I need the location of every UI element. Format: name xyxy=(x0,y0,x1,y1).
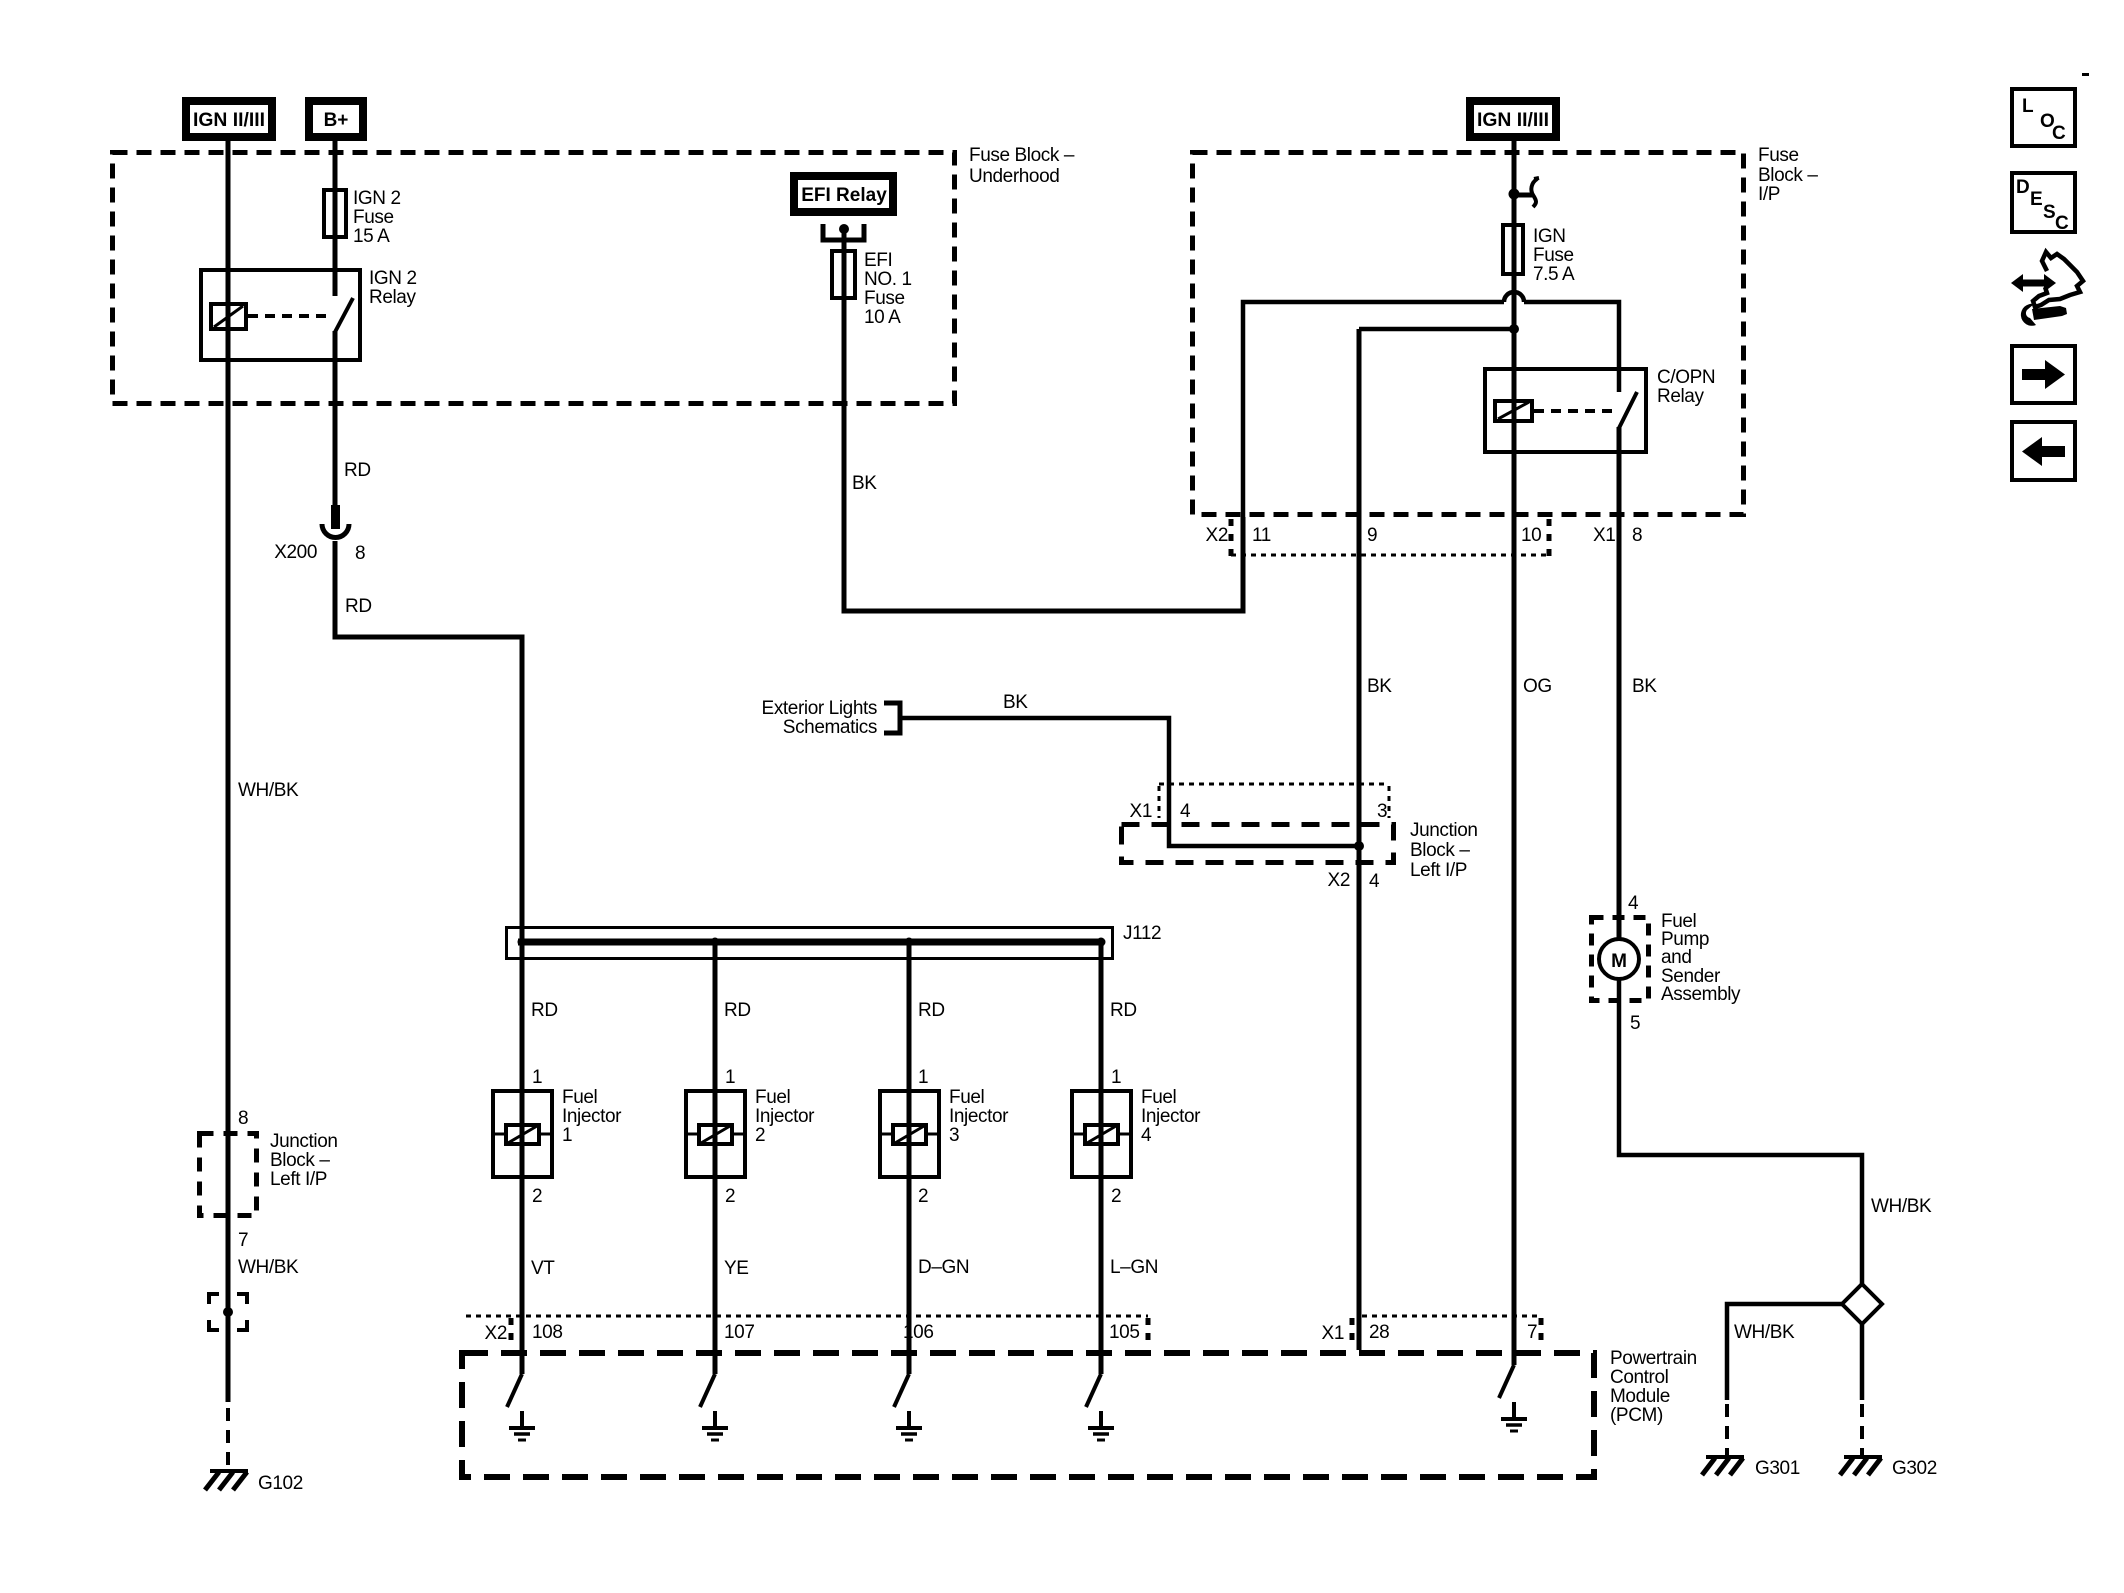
connector X200 socket xyxy=(322,524,349,538)
svg-text:(PCM): (PCM) xyxy=(1610,1405,1663,1426)
connector X1 separator (fuse block IP) xyxy=(1547,519,1552,556)
node J112 tap 3 xyxy=(905,938,914,947)
svg-text:Assembly: Assembly xyxy=(1661,984,1741,1005)
fuse block IP dashed box xyxy=(1193,153,1744,515)
hidden wire to G302 xyxy=(1860,1404,1864,1457)
connector X1 strip (PCM) xyxy=(1362,1315,1541,1318)
svg-text:7.5 A: 7.5 A xyxy=(1533,264,1575,285)
power tag IGN II/III (right) xyxy=(1470,101,1556,137)
wire hop over IGN feed xyxy=(1504,292,1524,302)
svg-text:C/OPN: C/OPN xyxy=(1657,367,1715,388)
svg-text:BK: BK xyxy=(1367,676,1392,697)
PCM dashed box xyxy=(462,1353,1594,1477)
svg-text:Fuel: Fuel xyxy=(1141,1087,1176,1108)
svg-text:WH/BK: WH/BK xyxy=(238,780,299,801)
label IGN Fuse 7.5 A xyxy=(1533,226,1575,285)
relay C/OPN coil xyxy=(1495,401,1532,421)
svg-text:C: C xyxy=(2055,213,2069,234)
connector X200 pin xyxy=(331,505,340,529)
PCM driver (pin 107) blade xyxy=(700,1374,715,1407)
svg-text:3: 3 xyxy=(1377,801,1387,822)
wire WH/BK to G301 xyxy=(1727,1304,1842,1400)
svg-text:105: 105 xyxy=(1109,1322,1140,1343)
svg-text:IGN II/III: IGN II/III xyxy=(1477,110,1549,131)
wire L-GN injector 4 return xyxy=(1099,1179,1104,1374)
svg-text:Fuel: Fuel xyxy=(562,1087,597,1108)
node EFI relay output xyxy=(839,224,849,234)
EFI relay output bracket xyxy=(823,224,864,240)
svg-text:Relay: Relay xyxy=(1657,386,1704,407)
svg-text:RD: RD xyxy=(345,596,372,617)
svg-text:7: 7 xyxy=(1527,1322,1537,1343)
ground G302 xyxy=(1840,1457,1882,1475)
fuel injector 3 xyxy=(878,1091,941,1177)
PCM driver (pin 7) blade xyxy=(1499,1365,1514,1398)
relay C/OPN switch blade xyxy=(1619,392,1637,428)
wire BK relay output to fuel pump xyxy=(1617,427,1622,939)
svg-text:VT: VT xyxy=(531,1258,555,1279)
fuel pump motor xyxy=(1599,939,1639,979)
svg-text:15 A: 15 A xyxy=(353,226,390,247)
svg-text:5: 5 xyxy=(1630,1013,1640,1034)
svg-text:E: E xyxy=(2030,189,2043,210)
svg-text:1: 1 xyxy=(1111,1067,1121,1088)
svg-text:Fuse: Fuse xyxy=(864,288,905,309)
svg-text:2: 2 xyxy=(532,1186,542,1207)
connector X1 strip (junction block) xyxy=(1159,784,1389,818)
node IGN fuse output junction xyxy=(1509,324,1519,334)
wire WH/BK fuel pump return xyxy=(1619,979,1862,1284)
svg-text:IGN II/III: IGN II/III xyxy=(193,110,265,131)
svg-text:Fuel: Fuel xyxy=(949,1087,984,1108)
wire BK from EFI fuse to fuse block IP pin 11 xyxy=(844,298,1243,611)
connector strip bottom line xyxy=(1231,554,1549,557)
relay C/OPN dashed actuation link xyxy=(1534,409,1614,413)
wire RD injector 2 feed xyxy=(713,942,718,1180)
svg-text:EFI: EFI xyxy=(864,250,892,271)
node J112 tap 2 xyxy=(711,938,720,947)
wire EFI relay to fuse xyxy=(842,229,847,298)
svg-text:Underhood: Underhood xyxy=(969,166,1059,187)
svg-text:BK: BK xyxy=(1632,676,1657,697)
bus J112 xyxy=(518,939,1103,946)
svg-text:X2: X2 xyxy=(1206,525,1228,546)
svg-text:2: 2 xyxy=(755,1125,765,1146)
fuel injector 4 xyxy=(1070,1091,1133,1177)
svg-text:G301: G301 xyxy=(1755,1458,1800,1479)
svg-text:RD: RD xyxy=(724,1000,751,1021)
svg-text:D–GN: D–GN xyxy=(918,1257,969,1278)
wire YE injector 2 return xyxy=(713,1179,718,1374)
splice connector brackets xyxy=(209,1294,247,1330)
svg-text:Block –: Block – xyxy=(270,1150,330,1171)
label Exterior Lights Schematics xyxy=(762,698,877,738)
svg-text:108: 108 xyxy=(532,1322,563,1343)
svg-text:L: L xyxy=(2022,96,2034,117)
PCM driver (pin 106) blade xyxy=(894,1374,909,1407)
svg-text:OG: OG xyxy=(1523,676,1552,697)
hidden wire to G102 xyxy=(226,1408,230,1470)
fuse block underhood dashed box xyxy=(113,153,955,404)
svg-text:Injector: Injector xyxy=(1141,1106,1201,1127)
stray mark top right xyxy=(2082,73,2089,76)
svg-text:11: 11 xyxy=(1252,525,1271,546)
wire WH/BK from IGN II/III down left side xyxy=(226,141,231,1402)
wire VT injector 1 return xyxy=(520,1179,525,1374)
node junction block splice xyxy=(1354,841,1364,851)
svg-text:B+: B+ xyxy=(324,110,349,131)
wire RD injector 3 feed xyxy=(907,942,912,1180)
svg-text:Powertrain: Powertrain xyxy=(1610,1348,1697,1369)
svg-text:WH/BK: WH/BK xyxy=(238,1257,299,1278)
label Fuel Injector 3 xyxy=(949,1087,1009,1146)
node J112 tap 4 xyxy=(1097,938,1106,947)
PCM driver (pin 108) blade xyxy=(507,1374,522,1407)
ground symbol PCM (pin 108) xyxy=(509,1411,535,1440)
ground symbol PCM (pin 107) xyxy=(702,1411,728,1440)
wire D-GN injector 3 return xyxy=(907,1179,912,1374)
svg-text:YE: YE xyxy=(724,1258,749,1279)
power tag IGN II/III (left) xyxy=(186,101,272,137)
label Junction Block Left IP xyxy=(1410,820,1478,881)
svg-text:28: 28 xyxy=(1369,1322,1389,1343)
svg-text:BK: BK xyxy=(852,473,877,494)
ground symbol PCM (pin 105) xyxy=(1088,1411,1114,1440)
svg-text:4: 4 xyxy=(1141,1125,1152,1146)
hidden wire to G301 xyxy=(1725,1404,1729,1457)
svg-text:RD: RD xyxy=(1110,1000,1137,1021)
svg-text:4: 4 xyxy=(1180,801,1191,822)
connector X1 separator right xyxy=(1539,1318,1544,1344)
svg-text:Left I/P: Left I/P xyxy=(1410,860,1467,881)
svg-text:10: 10 xyxy=(1521,525,1541,546)
wire IGN feed vertical xyxy=(1512,141,1517,1365)
svg-text:X1: X1 xyxy=(1593,525,1615,546)
icon LOC box xyxy=(2012,89,2075,146)
svg-text:WH/BK: WH/BK xyxy=(1871,1196,1932,1217)
svg-text:BK: BK xyxy=(1003,692,1028,713)
node J112 tap 1 xyxy=(518,938,527,947)
svg-text:Injector: Injector xyxy=(949,1106,1009,1127)
label Junction Block Left IP xyxy=(270,1131,338,1190)
svg-text:Block –: Block – xyxy=(1410,840,1470,861)
exterior lights bracket xyxy=(884,703,900,733)
svg-text:107: 107 xyxy=(724,1322,755,1343)
svg-text:X2: X2 xyxy=(485,1323,507,1344)
svg-text:Junction: Junction xyxy=(270,1131,338,1152)
junction block left IP dashed box (center) xyxy=(1122,825,1394,863)
power tag EFI Relay xyxy=(794,176,893,212)
wire RD injector 4 feed xyxy=(1099,942,1104,1180)
svg-text:X1: X1 xyxy=(1130,801,1152,822)
svg-text:7: 7 xyxy=(238,1230,248,1251)
ground symbol PCM (pin 7) xyxy=(1501,1402,1527,1431)
label Fuel Injector 2 xyxy=(755,1087,815,1146)
svg-text:8: 8 xyxy=(1632,525,1642,546)
label Powertrain Control Module (PCM) xyxy=(1610,1348,1697,1426)
svg-text:Fuse Block –: Fuse Block – xyxy=(969,145,1075,166)
svg-text:Fuel: Fuel xyxy=(755,1087,790,1108)
ground G102 xyxy=(205,1471,248,1490)
connector X2 strip (PCM) xyxy=(466,1315,1148,1318)
fuel injector 1 xyxy=(491,1091,554,1177)
svg-text:Injector: Injector xyxy=(562,1106,622,1127)
fuel injector 2 xyxy=(684,1091,747,1177)
svg-text:C: C xyxy=(2052,123,2066,144)
fuse IGN 2 15A xyxy=(324,190,346,237)
connector X2 separator left xyxy=(509,1318,514,1344)
icon DESC box xyxy=(2012,173,2075,234)
svg-text:1: 1 xyxy=(562,1125,572,1146)
svg-text:1: 1 xyxy=(725,1067,735,1088)
svg-text:2: 2 xyxy=(1111,1186,1121,1207)
svg-text:WH/BK: WH/BK xyxy=(1734,1322,1795,1343)
connector X1 separator left xyxy=(1350,1318,1355,1344)
svg-text:M: M xyxy=(1611,951,1627,972)
svg-text:Junction: Junction xyxy=(1410,820,1478,841)
svg-text:Schematics: Schematics xyxy=(783,717,877,738)
ground G301 xyxy=(1702,1457,1744,1475)
wire through fuse EFI xyxy=(842,251,847,298)
svg-text:RD: RD xyxy=(344,460,371,481)
svg-text:NO. 1: NO. 1 xyxy=(864,269,912,290)
svg-text:Fuse: Fuse xyxy=(1758,145,1799,166)
splice diamond xyxy=(1842,1284,1882,1324)
fuse EFI NO. 1 10A xyxy=(832,251,855,298)
svg-text:IGN: IGN xyxy=(1533,226,1566,247)
svg-text:8: 8 xyxy=(355,543,365,564)
svg-text:1: 1 xyxy=(532,1067,542,1088)
label C/OPN Relay xyxy=(1657,367,1715,407)
svg-text:9: 9 xyxy=(1367,525,1377,546)
svg-text:Exterior Lights: Exterior Lights xyxy=(762,698,877,719)
svg-text:3: 3 xyxy=(949,1125,959,1146)
wire branch to pin 9 xyxy=(1359,327,1514,332)
svg-text:106: 106 xyxy=(903,1322,934,1343)
wire to C/OPN relay switch xyxy=(1524,302,1619,392)
svg-text:IGN 2: IGN 2 xyxy=(369,268,417,289)
fuse IGN 7.5A xyxy=(1503,225,1523,274)
svg-text:X200: X200 xyxy=(274,542,317,563)
label EFI NO. 1 Fuse 10 A xyxy=(864,250,912,328)
svg-text:Fuse: Fuse xyxy=(1533,245,1574,266)
wire pin 11 riser inside fuse block xyxy=(1243,302,1504,517)
svg-text:Control: Control xyxy=(1610,1367,1668,1388)
junction block left IP dashed box xyxy=(200,1134,257,1216)
icon component locator arrows xyxy=(2011,252,2083,326)
svg-text:S: S xyxy=(2043,202,2056,223)
connector X2 separator (fuse block IP) xyxy=(1229,519,1234,556)
wire BK exterior lights to junction block xyxy=(900,718,1359,846)
svg-text:Injector: Injector xyxy=(755,1106,815,1127)
label Fuse Block Underhood xyxy=(969,145,1075,187)
relay IGN 2 box xyxy=(201,270,360,360)
svg-text:Relay: Relay xyxy=(369,287,416,308)
svg-text:2: 2 xyxy=(725,1186,735,1207)
wire WH/BK to G302 xyxy=(1860,1324,1865,1400)
svg-text:IGN 2: IGN 2 xyxy=(353,188,401,209)
svg-text:4: 4 xyxy=(1369,871,1380,892)
svg-text:2: 2 xyxy=(918,1186,928,1207)
svg-text:X2: X2 xyxy=(1328,870,1350,891)
svg-text:J112: J112 xyxy=(1123,923,1161,944)
wire pin 9 drop xyxy=(1357,329,1362,1350)
relay IGN 2 coil xyxy=(211,304,246,329)
svg-text:Fuse: Fuse xyxy=(353,207,394,228)
svg-text:Left I/P: Left I/P xyxy=(270,1169,327,1190)
svg-text:X1: X1 xyxy=(1322,1323,1344,1344)
connector X2 separator right xyxy=(1146,1318,1151,1344)
power tag B+ xyxy=(309,101,363,137)
label Fuel Pump and Sender Assembly xyxy=(1661,911,1741,1005)
wire RD relay output xyxy=(333,331,338,512)
svg-text:G302: G302 xyxy=(1892,1458,1937,1479)
icon forward arrow box xyxy=(2012,346,2075,403)
relay C/OPN box xyxy=(1485,369,1646,452)
icon back arrow box xyxy=(2012,422,2075,480)
ground symbol PCM (pin 106) xyxy=(896,1411,922,1440)
PCM driver (pin 105) blade xyxy=(1086,1374,1101,1407)
svg-text:and: and xyxy=(1661,947,1692,968)
relay IGN 2 switch blade xyxy=(335,298,353,332)
label Fuel Injector 4 xyxy=(1141,1087,1201,1146)
svg-text:G102: G102 xyxy=(258,1473,303,1494)
svg-text:EFI Relay: EFI Relay xyxy=(801,185,887,206)
svg-text:8: 8 xyxy=(238,1108,248,1129)
svg-text:D: D xyxy=(2016,177,2030,198)
label IGN 2 Relay xyxy=(369,268,417,308)
wire RD to J112 rail xyxy=(335,541,522,1180)
fuel pump dashed box xyxy=(1592,918,1649,1001)
node splice xyxy=(223,1307,233,1317)
label Fuse Block IP xyxy=(1758,145,1818,205)
wire B+ upper segment xyxy=(333,141,338,296)
svg-text:RD: RD xyxy=(918,1000,945,1021)
label Fuel Injector 1 xyxy=(562,1087,622,1146)
splice pack J112 box xyxy=(507,928,1113,959)
svg-text:RD: RD xyxy=(531,1000,558,1021)
relay IGN 2 dashed actuation link xyxy=(248,314,332,318)
svg-text:I/P: I/P xyxy=(1758,184,1780,205)
svg-text:Module: Module xyxy=(1610,1386,1670,1407)
svg-text:1: 1 xyxy=(918,1067,928,1088)
label IGN 2 Fuse 15 A xyxy=(353,188,401,247)
svg-text:L–GN: L–GN xyxy=(1110,1257,1158,1278)
ignition switch tap xyxy=(1509,178,1540,207)
svg-text:4: 4 xyxy=(1628,893,1639,914)
svg-text:Block –: Block – xyxy=(1758,165,1818,186)
svg-text:10 A: 10 A xyxy=(864,307,901,328)
